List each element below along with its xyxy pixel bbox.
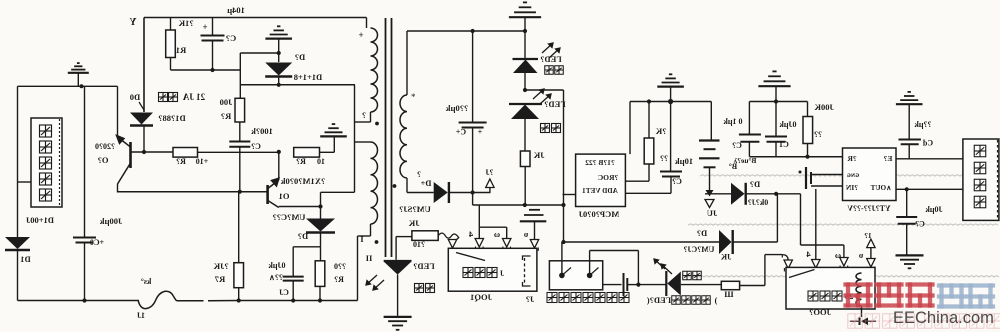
R10 refdes <box>413 240 425 249</box>
sensor box label char4 <box>40 173 52 185</box>
D2 value 1N4148 <box>294 72 323 82</box>
D2 refdes <box>295 52 305 62</box>
svg-text:??∧: ??∧ <box>269 273 283 282</box>
svg-text:ADD VET1: ADD VET1 <box>582 187 618 195</box>
wire D4 node down <box>472 193 474 206</box>
wire stub to U1 top <box>629 102 631 155</box>
wire plug bracket <box>479 226 506 228</box>
plug receptacle <box>867 267 875 270</box>
wire to D5 <box>320 207 322 219</box>
svg-text:UM?SJ?: UM?SJ? <box>399 204 431 214</box>
C7 refdes <box>226 33 236 43</box>
svg-text:?K: ?K <box>655 126 666 136</box>
LED4 label char4 <box>702 296 711 305</box>
wire winding II top lead <box>355 141 371 143</box>
svg-text:ГED?: ГED? <box>413 261 434 271</box>
C1 value 0.1u <box>779 120 797 129</box>
wire R1-C7 bottom <box>171 69 213 71</box>
capacitor C7 <box>201 36 225 41</box>
svg-text:J?: J? <box>526 294 535 304</box>
R10 value 1K <box>408 218 419 228</box>
svg-text:0Jµk: 0Jµk <box>268 261 286 270</box>
svg-text:?R: ?R <box>847 154 857 163</box>
R5 refdes <box>334 275 344 284</box>
plug label relay2 5 <box>858 250 863 260</box>
wire LED1 to LED2 <box>524 73 526 90</box>
svg-text:J00µk: J00µk <box>100 216 123 226</box>
R11 value 2K <box>655 126 666 136</box>
C10 value 10u <box>675 156 693 166</box>
sensor box label char1 <box>40 125 52 137</box>
svg-text:C?: C? <box>672 177 682 186</box>
R6 value 1K <box>533 150 544 160</box>
speaker label char1 <box>974 145 986 157</box>
label regulator text <box>159 93 168 102</box>
LED4 label close <box>714 295 717 305</box>
R1 value 1K <box>178 18 194 28</box>
svg-text:+: + <box>358 30 363 40</box>
wire upper distribution <box>630 101 711 103</box>
C9 value 0.01u <box>268 261 286 270</box>
outlet label char1 <box>547 293 557 303</box>
Q1 value 13003 <box>281 176 326 186</box>
R5 value 510 <box>334 262 346 271</box>
wire 2K top lead <box>648 102 650 139</box>
wire node Y vertical <box>143 18 145 113</box>
wire base row mid <box>198 151 279 153</box>
junction R7 rail <box>237 298 241 302</box>
resistor R4 <box>294 148 320 158</box>
junction C5 top <box>905 187 909 191</box>
junction D4 node <box>471 190 475 194</box>
svg-text:C?: C? <box>915 220 925 229</box>
svg-text:E?: E? <box>883 154 892 163</box>
capacitor C6 33uF <box>899 140 921 145</box>
svg-text:?JK: ?JK <box>213 261 229 271</box>
svg-text:R?: R? <box>176 157 186 166</box>
resistor R10 <box>412 231 438 241</box>
wire U2 to speaker top <box>896 158 963 160</box>
wire D0 to node <box>143 126 145 152</box>
relay1 bottom label <box>470 292 492 302</box>
svg-text:R7: R7 <box>214 274 225 284</box>
LED3 arrows <box>366 275 384 290</box>
wire to ground G2 <box>333 137 335 152</box>
junction LED column <box>523 88 527 92</box>
svg-text:C+: C+ <box>455 128 466 137</box>
svg-text:?X1M?0?0k: ?X1M?0?0k <box>281 176 326 186</box>
D4 refdes <box>420 178 431 188</box>
wire U1 left pin <box>563 194 576 196</box>
wire node to zener top <box>240 52 278 54</box>
wire C1 bottom lead <box>775 142 777 157</box>
R9 refdes <box>814 130 822 139</box>
wire to C9 branch <box>293 246 320 248</box>
LED1 refdes <box>540 54 561 64</box>
wire winding II corner <box>358 235 371 237</box>
wire LED1 top lead <box>524 31 526 59</box>
wire winding II bottom lead <box>370 224 372 236</box>
wire secondary top lead <box>406 31 408 95</box>
junction zener bottom <box>277 83 281 87</box>
relay J2 switch contact <box>789 270 815 278</box>
svg-text:C?: C? <box>226 33 236 43</box>
svg-text:D1?88?: D1?88? <box>158 113 185 123</box>
wire pin15 stem <box>870 248 872 258</box>
connector bars node 5 <box>520 210 547 222</box>
svg-text:MCP?0?0J: MCP?0?0J <box>578 209 619 219</box>
svg-text:B°uе?λ: B°uе?λ <box>733 156 756 165</box>
LED2 color char2 <box>552 124 561 133</box>
fuse / mains squiggle <box>138 291 176 308</box>
capacitor C0 <box>73 238 96 243</box>
polarity dot winding I <box>375 122 379 126</box>
wire to D4 <box>407 192 434 194</box>
wire pin2 up to C10 <box>670 177 672 194</box>
wire filter top <box>749 101 807 103</box>
junction zener top <box>277 51 281 55</box>
ground G1 <box>68 63 89 73</box>
relay2 label char3 <box>832 291 842 301</box>
watermark wave 3 <box>684 276 999 277</box>
outlet label char5 <box>595 293 605 303</box>
svg-text:ɢɴɢ: ɢɴɢ <box>847 170 860 179</box>
Q1 refdes <box>279 191 290 201</box>
wire plug4 vertical <box>478 205 480 227</box>
capacitor C1 0.1uF <box>765 137 787 142</box>
wire mid distribution <box>473 204 564 206</box>
plug arrow relay2 aux <box>784 260 792 269</box>
svg-text:J00: J00 <box>220 97 233 107</box>
svg-text:D?: D? <box>298 231 308 241</box>
svg-text:?20?0: ?20?0 <box>95 142 115 151</box>
LED4 label char1 <box>672 296 681 305</box>
svg-text:100?k: 100?k <box>251 126 273 136</box>
junction C9 rail <box>291 298 295 302</box>
IC U1 RX2B box <box>576 154 626 206</box>
LED1 color char1 <box>545 66 554 75</box>
junction C0 rail <box>82 298 86 302</box>
wire bottom rail right <box>239 300 358 302</box>
wire transformer left vertical <box>354 85 356 193</box>
winding I polarity + <box>358 30 363 40</box>
U1 part number <box>578 209 619 219</box>
junction LED1 top <box>523 29 527 33</box>
wire relay2 pin4 feed <box>815 189 817 259</box>
wire top rail VCC <box>144 17 367 19</box>
junction LED4 row <box>636 283 640 287</box>
svg-text:??0: ??0 <box>334 262 346 271</box>
C0 refdes <box>90 238 104 247</box>
diode D6 1N5819 <box>731 183 746 205</box>
svg-text:ω: ω <box>835 250 841 260</box>
squiggle label top <box>141 277 152 286</box>
wire U2 out to speaker <box>896 188 963 190</box>
wire C0 top lead <box>84 86 86 237</box>
speaker box <box>963 139 999 220</box>
svg-text:JK: JK <box>720 253 731 262</box>
LED4 arrows <box>654 259 672 274</box>
svg-text:??: ?? <box>660 154 668 163</box>
junction main row left <box>561 240 565 244</box>
capacitor C4 330uF <box>459 123 487 128</box>
U2 pin label OUT <box>870 184 891 192</box>
outlet label char7 <box>619 293 629 303</box>
wire G7 stem <box>775 87 777 102</box>
junction R5 rail <box>318 298 322 302</box>
C7 polarity + <box>202 22 207 32</box>
wire to R2 column <box>213 69 241 71</box>
battery label text <box>733 156 756 165</box>
svg-text:D?: D? <box>750 179 760 189</box>
svg-text:ГED?: ГED? <box>544 99 565 109</box>
wire to LED4 <box>638 284 666 286</box>
label pin15 <box>864 231 872 240</box>
svg-text:ks°: ks° <box>141 277 152 286</box>
svg-text:??0µk: ??0µk <box>446 103 469 113</box>
svg-text:J0µk: J0µk <box>925 205 943 214</box>
ground G9 <box>896 255 924 268</box>
R8 value <box>724 289 734 299</box>
plug receptacle <box>812 268 820 271</box>
ground G6 <box>657 74 684 86</box>
capacitor C5 104 <box>896 217 917 224</box>
transformer T1 winding II <box>371 142 378 224</box>
wire U1 right pin2 <box>625 192 671 194</box>
wire C11 to junction <box>627 284 638 286</box>
wire R6 bottom lead <box>524 167 526 206</box>
D1 value 1N4007 <box>25 215 54 225</box>
D0 label callout <box>139 102 144 110</box>
wire D1 to bottom rail <box>17 250 19 301</box>
outlet label char3 <box>571 293 581 303</box>
C4 polarity <box>477 128 482 137</box>
wire C4 bottom lead <box>472 128 474 193</box>
C10 refdes <box>672 177 682 186</box>
relay1 refdes J1 <box>526 294 535 304</box>
transistor Q1 13003 <box>268 178 279 207</box>
svg-text:C?: C? <box>251 142 261 151</box>
wire outlet left feed <box>561 242 563 275</box>
C6 value 33u <box>914 120 932 129</box>
wire Q1 collector row <box>279 206 321 208</box>
watermark slogan outline text <box>848 314 862 328</box>
LED4 color char2 <box>693 271 702 280</box>
svg-text:D?: D? <box>697 228 707 238</box>
svg-text:Ш: Ш <box>724 289 734 299</box>
relay J1 switch contact <box>456 253 485 261</box>
svg-text:0k?J?: 0k?J? <box>748 198 768 207</box>
plug arrow 5 <box>530 240 538 249</box>
wire zener top lead <box>278 53 280 62</box>
wire R9 top lead <box>807 102 809 117</box>
R3 refdes <box>176 157 186 166</box>
wire wavy link R10 to plug <box>438 233 459 242</box>
wire LED3 to ground <box>397 275 399 316</box>
junction RX2B pin node <box>561 203 565 207</box>
U1 text row3 <box>582 187 618 195</box>
connector arrow 15 up <box>867 239 875 248</box>
IC U2 voice chip box <box>843 148 897 201</box>
wire winding I bottom bracket <box>355 121 371 123</box>
label 12V text <box>182 92 205 102</box>
svg-text:?1?B ?22: ?1?B ?22 <box>585 158 615 167</box>
plug receptacle <box>449 248 457 251</box>
capacitor C12 0.1uF <box>739 135 761 142</box>
transistor Q5 S8050 <box>117 136 131 185</box>
plug receptacle <box>784 268 792 271</box>
junction D0 bottom <box>142 150 146 154</box>
wire feedback to winding II <box>321 191 355 193</box>
outlet label char2 <box>559 293 569 303</box>
resistor R8 <box>721 281 739 289</box>
plug receptacle <box>531 248 539 251</box>
wire G8 to C6 <box>908 105 910 140</box>
outlet label char6 <box>607 293 617 303</box>
wire C4 top lead <box>472 31 474 123</box>
C8 value <box>251 126 273 136</box>
wire R2 to C8 <box>239 122 241 142</box>
relay2 label char1 <box>808 291 818 301</box>
wire D5 bottom <box>320 233 322 247</box>
D4 value 1N5819 <box>399 204 431 214</box>
wire base row left <box>131 151 174 153</box>
svg-text:J: J <box>500 269 504 278</box>
wire C5 top lead <box>906 189 908 217</box>
svg-text:YT?J??-??V: YT?J??-??V <box>847 204 891 213</box>
wire to relay2 left plug <box>765 254 782 256</box>
svg-text:+10: +10 <box>196 157 209 166</box>
wire winding I bottom lead <box>370 112 372 122</box>
svg-text:*: * <box>411 92 416 102</box>
relay2 label S2 <box>844 292 853 301</box>
C1 refdes <box>779 140 789 149</box>
junction C8 main wire <box>238 190 242 194</box>
plug arrow relay2 left <box>782 255 788 260</box>
svg-text:ГED?: ГED? <box>540 54 561 64</box>
svg-text:JK: JK <box>533 150 544 160</box>
svg-text:?10: ?10 <box>413 240 425 249</box>
relay J2 coil <box>856 273 862 306</box>
wire plug5 drop <box>534 221 536 239</box>
C4 value 330u <box>446 103 469 113</box>
svg-text:∧OUT: ∧OUT <box>870 184 891 192</box>
outlet label char4 <box>583 293 593 303</box>
C9 value2 <box>269 273 283 282</box>
battery B2 <box>806 167 811 189</box>
wire C6 bottom lead <box>908 144 910 159</box>
Q5 value S8050 <box>95 142 115 151</box>
svg-text:?: ? <box>417 170 421 179</box>
node Y label <box>129 17 137 28</box>
svg-text:D0: D0 <box>130 92 140 102</box>
squiggle label bottom <box>137 311 145 320</box>
plug label 4 <box>468 229 473 239</box>
wire 4.5V stem <box>489 188 491 193</box>
terminal label I <box>360 234 364 244</box>
wire filter bottom to U2 <box>749 156 842 158</box>
diode D1 <box>5 237 30 250</box>
svg-text:R?: R? <box>221 111 231 121</box>
svg-text:C1: C1 <box>779 140 789 149</box>
svg-text:JOQ1: JOQ1 <box>470 292 492 302</box>
svg-text:??µk: ??µk <box>914 120 932 129</box>
wire hook vertical <box>800 194 802 245</box>
C9 refdes <box>279 288 289 297</box>
svg-text:21 JA: 21 JA <box>182 92 205 102</box>
wire node to 4.5V <box>473 192 491 194</box>
relay1 label char3 <box>487 268 497 278</box>
U2 pin label E5 <box>883 154 892 163</box>
D6 value <box>748 198 768 207</box>
LED2 color char1 <box>541 124 550 133</box>
wire RX2B feed vertical <box>563 90 565 205</box>
svg-text:D+: D+ <box>420 178 431 188</box>
outlet contact right <box>590 268 599 276</box>
ground G3 <box>265 26 292 38</box>
LED3 color char2 <box>426 284 435 293</box>
wire down to LED4 row <box>637 251 639 285</box>
resistor R11 2K <box>644 138 654 164</box>
outlet box <box>549 261 602 290</box>
wire to Q1 emitter <box>278 152 280 180</box>
D7 label 1K <box>720 253 731 262</box>
svg-text:R?: R? <box>296 157 306 166</box>
svg-text:): ) <box>714 295 717 305</box>
D6 refdes <box>750 179 760 189</box>
watermark char Di red <box>877 285 902 306</box>
wire LED2 to R6 <box>524 119 526 151</box>
wire Q5 collector down <box>117 184 119 193</box>
R3 value <box>196 157 209 166</box>
wire to D1 <box>17 182 19 237</box>
R4 refdes <box>296 157 306 166</box>
resistor R7 <box>234 263 244 288</box>
svg-text:?1K: ?1K <box>178 18 194 28</box>
U1 text row2 <box>598 173 618 182</box>
wire left horizontal <box>18 85 118 87</box>
wire C7 bottom lead <box>212 41 214 71</box>
LED4 bottom label <box>647 295 671 305</box>
wire B1 bottom lead <box>709 167 711 190</box>
wire R7 bottom lead <box>238 288 240 301</box>
R2 value 100 <box>220 97 233 107</box>
svg-text:υ: υ <box>523 229 528 239</box>
LED LED4 infrared emit <box>666 271 681 296</box>
svg-text:UM?CJ?: UM?CJ? <box>683 245 714 254</box>
wire B2 to GND pin <box>811 174 843 176</box>
capacitor C11 plates <box>624 273 628 296</box>
C4 refdes <box>455 128 466 137</box>
capacitor C8 <box>229 142 250 147</box>
ground G2 <box>320 124 347 136</box>
svg-text:Cd: Cd <box>922 139 933 148</box>
sensor box label char5 <box>40 189 52 201</box>
C8 refdes <box>251 142 261 151</box>
svg-text:EEChina.com: EEChina.com <box>893 309 994 327</box>
plug label 5 <box>523 229 528 239</box>
wire plug4 drop <box>478 227 480 238</box>
C0 value 100uF <box>100 216 123 226</box>
plug receptacle <box>503 247 511 250</box>
wire Q1 base row <box>118 191 268 193</box>
wire outlet to C11 <box>603 284 622 286</box>
plug receptacle <box>476 247 484 250</box>
wire to RX2B feed <box>525 89 564 91</box>
polarity dot secondary <box>393 184 397 188</box>
sensor module box (PIR detector) <box>31 118 62 207</box>
wire LED3 top lead <box>395 237 397 260</box>
